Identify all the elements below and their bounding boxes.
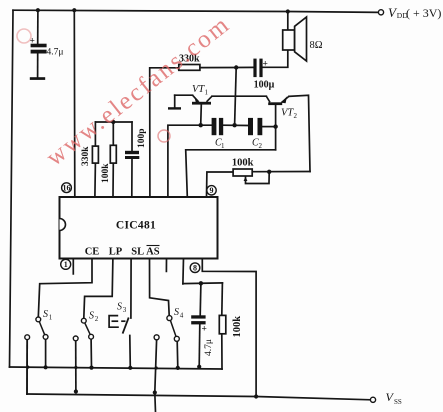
svg-text:( + 3V): ( + 3V): [406, 6, 441, 20]
watermark arc mark: [17, 29, 31, 43]
svg-text:CE: CE: [85, 247, 100, 258]
wire pin5 to S4: [150, 258, 170, 316]
svg-text:S: S: [89, 311, 94, 322]
svg-text:S: S: [43, 309, 48, 320]
svg-text:100k: 100k: [232, 316, 243, 338]
wire S4 blade contact down: [176, 341, 179, 368]
wire pin6 stub: [165, 258, 167, 271]
capacitor C6 4.7u bottom: [191, 315, 214, 356]
junction top rail x speaker: [286, 9, 290, 13]
wire pin10 riser and horizontal: [186, 150, 276, 197]
wire S1 blade contact B down: [45, 339, 47, 367]
resistor R3 100k vertical: [101, 145, 116, 183]
wire RC network top: [95, 121, 132, 123]
svg-text:VT: VT: [192, 84, 205, 95]
junction rail A x S3 contact: [128, 366, 132, 370]
svg-text:9: 9: [210, 186, 214, 195]
wire top rail VDD: [13, 10, 378, 12]
wire left border VDD down: [10, 10, 14, 367]
junction rail A x S2 left crossing: [74, 366, 77, 369]
wire rail B (VSS): [27, 394, 370, 400]
watermark circle mark: [158, 130, 170, 142]
svg-text:4.7μ: 4.7μ: [204, 339, 214, 356]
svg-text:16: 16: [63, 184, 71, 193]
wire S3 bottom to rail A: [129, 336, 132, 368]
wire 330k-v top/bottom: [94, 122, 96, 146]
wire VT1 base lead: [200, 105, 203, 126]
wire speaker bottom to 100u: [263, 50, 288, 67]
junction top rail x 4.7u: [36, 8, 40, 12]
switch S4: [154, 307, 184, 341]
capacitor C3 100p: [125, 128, 147, 159]
wire C1 to C2: [223, 124, 248, 126]
svg-text:1: 1: [49, 314, 53, 322]
svg-text:4: 4: [180, 312, 184, 320]
svg-text:100k: 100k: [101, 163, 111, 183]
junction top rail x pin16 riser: [72, 8, 76, 12]
wire pin3 to S2: [84, 258, 113, 318]
resistor R1 330k horizontal: [179, 54, 200, 71]
wire S1 contact C down: [26, 340, 28, 395]
wire S2 contact C down to rail B: [75, 341, 77, 392]
terminal VSS: [370, 390, 401, 406]
wire pin8 to rail B: [202, 258, 256, 397]
speaker B1 8ohm: [283, 17, 323, 61]
pin label 1: [61, 259, 71, 269]
wire pin7 net horizontal: [183, 282, 223, 285]
junction 330k/100u/VT base net: [234, 65, 238, 69]
resistor R5 100k vertical bottom: [219, 315, 243, 337]
junction rail A x S2 contact: [89, 366, 93, 370]
junction VT2 base x C2 wire: [273, 124, 277, 128]
terminal VDD: [378, 5, 441, 20]
resistor R2 330k vertical: [81, 146, 98, 166]
wire rail B left riser to S1: [26, 340, 28, 394]
junction rail A x S4 left crossing: [155, 366, 158, 369]
svg-text:4.7μ: 4.7μ: [47, 48, 64, 58]
pin label 9: [207, 186, 216, 196]
svg-text:1: 1: [205, 89, 209, 97]
junction rail B x S4 left: [153, 390, 157, 394]
switch S1: [25, 309, 53, 340]
transistor Q1 VT1: [168, 84, 212, 110]
wire pin2 to S1: [38, 258, 92, 317]
pin label 16: [62, 183, 72, 193]
svg-text:1: 1: [64, 260, 68, 269]
capacitor C1: [212, 118, 225, 150]
wire C2 right to VT2 base junction: [262, 126, 275, 128]
svg-text:2: 2: [259, 142, 263, 150]
wire VT1 emitter horizontal: [175, 94, 193, 96]
svg-text:100p: 100p: [137, 128, 147, 148]
capacitor C5 4.7u top-left: [30, 37, 64, 80]
wire pin11 riser and C1 feed: [168, 125, 212, 196]
svg-text:8: 8: [193, 264, 197, 273]
wire 4.7u bottom to ground bar: [37, 54, 39, 78]
wire 100k-v2 bottom: [221, 334, 223, 369]
svg-text:1: 1: [221, 142, 225, 150]
wire VT1 emitter net: ground bar riser: [174, 95, 176, 107]
wire 100p top/bottom: [131, 122, 133, 151]
svg-text:2: 2: [95, 315, 99, 323]
resistor R4 100k horizontal with wiper: [232, 158, 254, 182]
wire pin9 riser and 100k-h left: [207, 172, 234, 197]
wire 100k-h right to vertical: [252, 171, 310, 173]
wire 330k-h left + pin12 riser: [150, 68, 179, 197]
wire pin16 riser: [73, 10, 76, 196]
svg-text:3: 3: [123, 306, 127, 314]
junction RC top wire x 100k: [111, 120, 115, 124]
svg-text:100μ: 100μ: [254, 80, 275, 91]
svg-text:VT: VT: [281, 108, 294, 119]
junction pin7 wire x 4.7u: [199, 281, 203, 285]
junction rail B x S2 left: [74, 389, 78, 393]
wire speaker top: [287, 12, 289, 31]
wire S2 blade contact down: [90, 339, 92, 368]
junction rail B x pin8 wire: [254, 394, 258, 398]
wire pin1 stub: [72, 258, 74, 274]
junction rail A x S1 left crossing: [26, 366, 29, 369]
svg-text:100k: 100k: [232, 158, 254, 169]
wire 100k-h wiper loop: [246, 172, 270, 184]
junction rail A x S4 contact: [176, 366, 180, 370]
wire 4.7u top branch: [37, 10, 39, 44]
transistor Q2 VT2: [266, 96, 297, 120]
junction 100k-h right: [267, 170, 271, 174]
svg-text:SS: SS: [394, 398, 402, 406]
svg-text:CIC481: CIC481: [116, 219, 156, 231]
svg-text:+: +: [263, 60, 268, 70]
pin label 8: [190, 263, 200, 273]
wire junction down to C1C2: [235, 68, 237, 126]
junction rail A x 4.7u bottom: [197, 365, 201, 369]
wire 4.7u-2 top: [199, 283, 202, 315]
IC U1 CIC481 body: [60, 197, 218, 259]
capacitor C4 100u: [253, 59, 274, 91]
junction VT1 base x C1 wire: [199, 123, 203, 127]
svg-text:8Ω: 8Ω: [310, 40, 323, 51]
capacitor C2: [248, 118, 263, 150]
junction C1-C2 wire x drop wire: [232, 123, 236, 127]
switch S2: [73, 311, 99, 341]
svg-text:S: S: [174, 307, 179, 318]
svg-text:+: +: [202, 325, 207, 335]
wire 100k-v2 top: [221, 283, 224, 316]
wire 4.7u-2 bottom: [198, 324, 201, 366]
wire 100k-v top/bottom: [112, 122, 114, 145]
wire VT2 emitter to right vertical: [289, 95, 310, 171]
wire VT1 collector to VT2: [212, 95, 266, 97]
wire pin7 down: [182, 258, 185, 284]
wire VT2 base lead down: [275, 105, 277, 150]
svg-text:LP: LP: [109, 247, 123, 258]
junction rail A x S1 contact: [44, 365, 48, 369]
wire pin4 to S3 top: [130, 258, 132, 318]
svg-text:S: S: [117, 302, 122, 313]
wire 100u left to junction: [236, 66, 253, 68]
svg-text:SL: SL: [131, 247, 144, 258]
wire S4 contact C down through rails: [155, 340, 157, 412]
svg-text:2: 2: [294, 112, 298, 120]
svg-text:AS: AS: [146, 247, 160, 258]
wire 330k-h right: [200, 67, 236, 69]
wire rail A (switch common): [10, 367, 223, 369]
switch S3 pushbutton: [109, 302, 129, 334]
